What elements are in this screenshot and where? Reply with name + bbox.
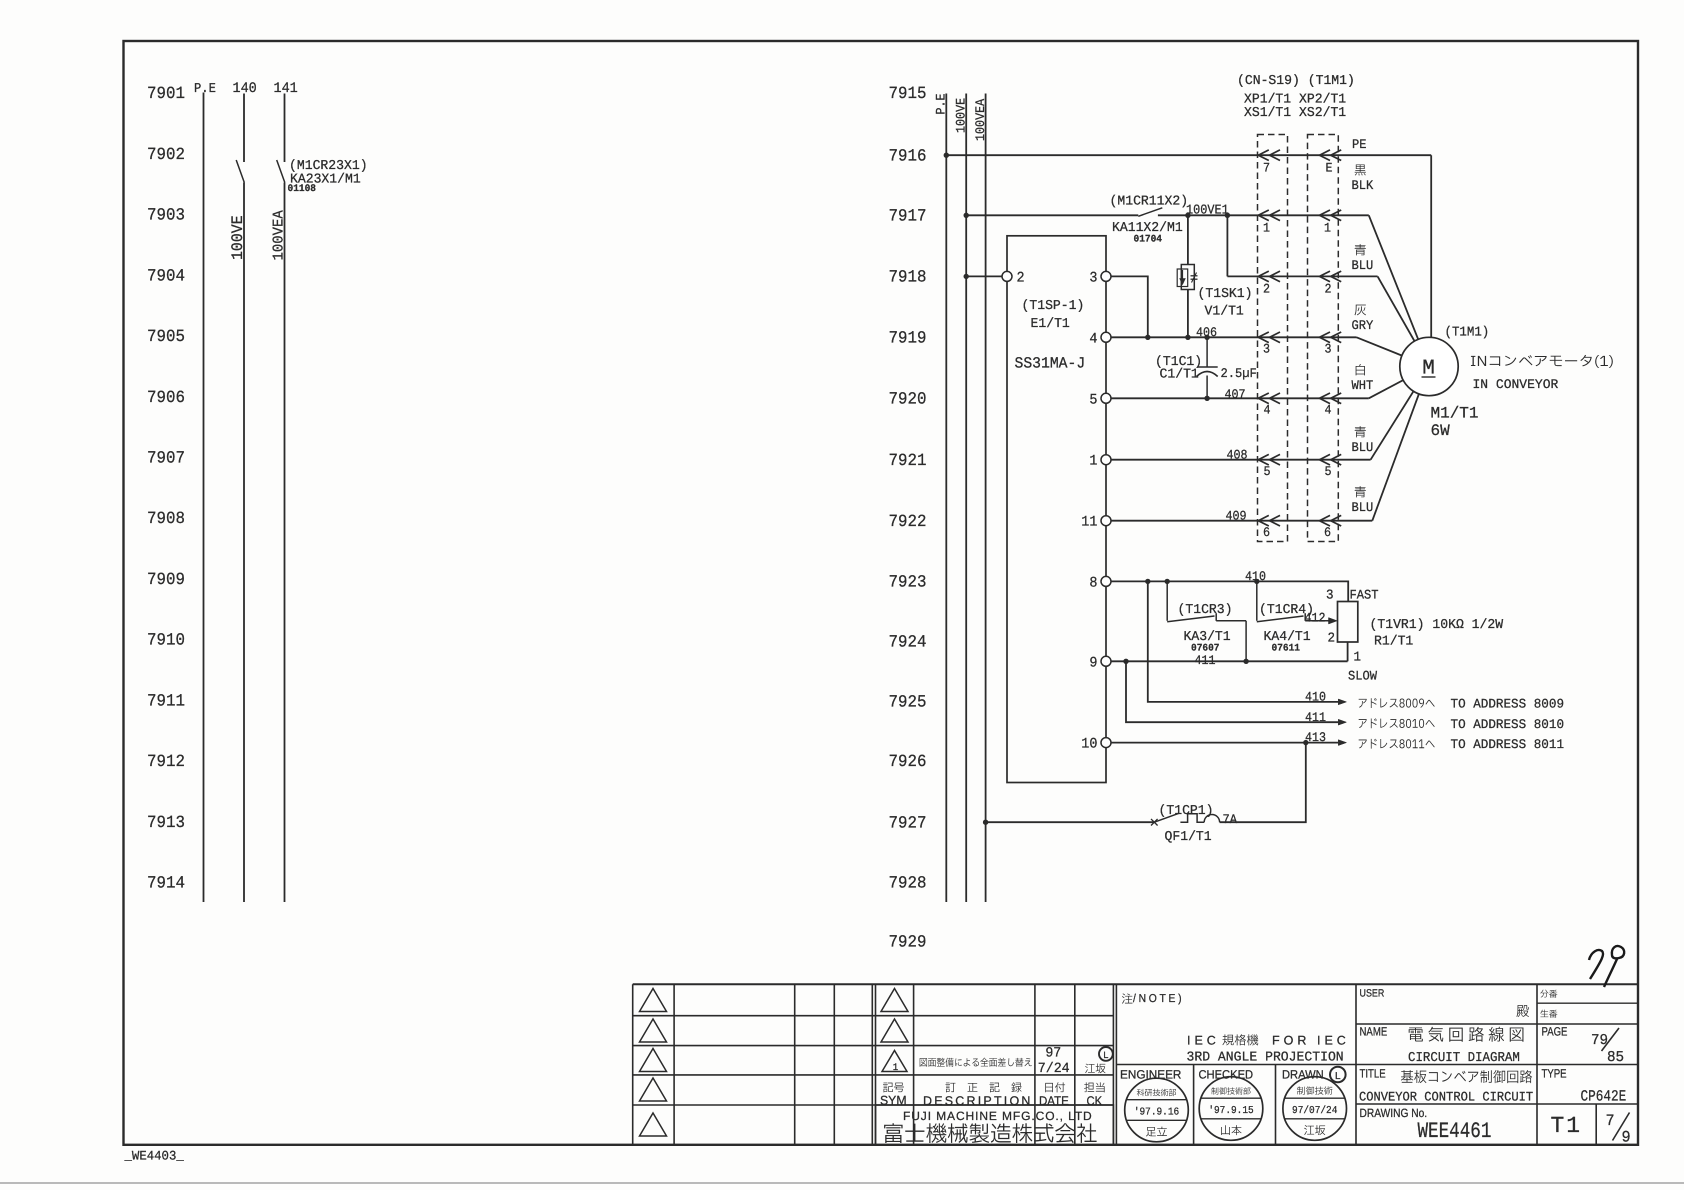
svg-text:R1/T1: R1/T1 [1374,635,1413,650]
left ladder row labels 7901-7914 [147,85,185,893]
wire color label BLU row4 jp [1355,426,1366,437]
title jp kiban conveyor seigyo kairo [1401,1070,1532,1083]
capacitor (T1C1) C1/T1 symbol [1206,337,1208,367]
drawn circled L [1330,1067,1346,1083]
svg-text:BLU: BLU [1352,500,1374,515]
svg-text:V1/T1: V1/T1 [1205,305,1244,320]
connector XP1/XS1 arrow pin 2 [1258,271,1269,282]
junction 100VE at 7918 [964,274,969,279]
svg-text:P.E: P.E [194,82,216,97]
svg-text:7904: 7904 [147,267,185,286]
right ladder row labels 7915-7929 [889,85,927,953]
varistor (T1SK1) V1/T1 symbol [1181,265,1194,290]
wire 7921 row 408 [1111,459,1371,461]
svg-text:7918: 7918 [889,269,927,288]
svg-text:PE: PE [1352,137,1367,152]
svg-text:(T1CP1): (T1CP1) [1159,804,1214,819]
motor T1M1 M1/T1 circle [1400,337,1458,395]
svg-text:3RD ANGLE PROJECTION: 3RD ANGLE PROJECTION [1187,1051,1344,1066]
svg-text:M1/T1: M1/T1 [1431,405,1479,423]
sheet cell dividers [1536,1065,1538,1145]
note box divider [1116,1064,1638,1066]
svg-text:141: 141 [274,81,298,97]
sym header jp [883,1083,904,1093]
svg-text:7914: 7914 [147,875,185,894]
bus wire 141 upper [284,94,286,163]
svg-text:DRAWING No.: DRAWING No. [1360,1106,1428,1120]
svg-text:WHT: WHT [1352,378,1374,393]
revision triangle row3 [640,1049,667,1072]
description header jp [946,1082,1022,1092]
connector XP2/XS2 arrow pin E [1320,150,1331,161]
connector XP1/XS1 dashed box [1258,135,1288,542]
svg-text:QF1/T1: QF1/T1 [1165,830,1212,845]
connector XP2/XS2 arrow pin 1 row 7917 [1320,210,1331,221]
terminal 3 circle [1101,271,1111,281]
wire 7922 diagonal to motor [1372,367,1429,521]
sym triangle row1 [881,989,908,1012]
svg-text:2: 2 [1263,282,1270,297]
svg-text:7922: 7922 [889,513,927,532]
svg-text:TYPE: TYPE [1542,1067,1567,1081]
svg-text:1: 1 [1324,221,1331,236]
junction 411 address drop [1123,659,1128,664]
svg-text:7925: 7925 [889,694,927,713]
wire color label BLU row5 jp [1355,486,1366,497]
svg-text:L: L [1335,1071,1341,1082]
svg-text:PAGE: PAGE [1542,1025,1568,1039]
terminal 5 circle [1101,393,1111,403]
bus wire 141 lower [284,183,286,903]
junction terminal3 drop at 7919 [1145,335,1150,340]
svg-text:FOR: FOR [1272,1034,1310,1048]
fuji machine jp company name [884,1123,1097,1143]
svg-text:8: 8 [1089,575,1097,591]
svg-text:NAME: NAME [1360,1025,1388,1039]
wire 7921 diagonal to motor [1371,367,1429,460]
svg-text:IN CONVEYOR: IN CONVEYOR [1473,377,1559,392]
wire 7916 PE row [946,154,1431,156]
terminal 11 circle [1101,516,1111,526]
junction 413 QF1 riser [1303,740,1308,745]
svg-text:TO ADDRESS 8009: TO ADDRESS 8009 [1451,697,1565,712]
label to address 8010 jp [1359,718,1435,728]
svg-text:1: 1 [1263,221,1270,236]
terminal 10 circle [1101,738,1111,748]
svg-text:7927: 7927 [889,814,927,833]
drawn stamp seal [1283,1077,1347,1141]
svg-text:(T1M1): (T1M1) [1445,326,1490,341]
svg-text:/NOTE): /NOTE) [1133,993,1184,1005]
svg-text:(T1CR3): (T1CR3) [1178,603,1233,618]
wire 410 to address 8009 [1148,581,1338,702]
svg-text:C1/T1: C1/T1 [1160,368,1199,383]
connector XP1/XS1 arrow pin 4 [1258,393,1269,404]
svg-text:USER: USER [1360,988,1385,1000]
engineer stamp seal [1125,1078,1189,1142]
page edge scan line [0,1182,1684,1184]
relay contact (T1CR3) KA3/T1 [1166,581,1168,620]
connector XP2/XS2 arrow pin 5 [1320,454,1331,465]
svg-text:1: 1 [893,1063,898,1074]
svg-text:07611: 07611 [1272,644,1301,655]
wire 410 row from terminal 8 [1111,581,1348,601]
svg-text:7928: 7928 [889,875,927,894]
revision triangle row5 [640,1113,667,1136]
date header jp [1045,1082,1065,1092]
svg-text:7905: 7905 [147,328,185,347]
revision triangle row1 [640,989,667,1012]
rev ck Esaka jp [1085,1064,1105,1074]
svg-text:7901: 7901 [147,85,185,104]
junction 410 KA4 drop [1254,579,1259,584]
wire 413 to address 8011 [1111,742,1338,744]
junction varistor tap at 7917 [1185,213,1190,218]
svg-text:100VE1: 100VE1 [1186,204,1229,219]
tono jp [1516,1005,1528,1017]
connector XP2/XS2 arrow pin 4 [1320,393,1331,404]
svg-text:409: 409 [1226,509,1247,524]
svg-text:7912: 7912 [147,753,185,772]
svg-text:7909: 7909 [147,571,185,590]
junction pin2 drop at 7917 [1225,213,1230,218]
wire 7927 to 413 riser [1220,743,1306,823]
relay contact KA23X1/M1 on 141 [277,160,285,183]
svg-text:01108: 01108 [288,184,317,195]
wire color label WHT jp [1356,364,1365,375]
svg-text:7921: 7921 [889,452,927,471]
svg-text:SS31MA-J: SS31MA-J [1015,355,1086,373]
wire 100VE1 drop to row 7918 [1226,215,1228,276]
svg-text:SLOW: SLOW [1348,669,1377,684]
svg-text:SYM: SYM [880,1094,907,1108]
svg-text:3: 3 [1326,589,1334,604]
svg-text:01704: 01704 [1134,235,1163,246]
svg-text:IEC: IEC [1317,1034,1350,1048]
wire 7918 from 100VE to terminal 2 [966,275,1002,277]
svg-text:11: 11 [1081,515,1097,531]
bus wire 100VE right [965,94,967,903]
sym triangle row2 [881,1019,908,1042]
svg-text:97: 97 [1045,1045,1061,1061]
wire 7927 from 100VEA [986,821,1155,823]
junction 410 KA3 drop [1165,579,1170,584]
relay contact (M1CR23X1) on 140 [236,160,244,183]
svg-text:5: 5 [1264,464,1271,479]
connector XP2/XS2 dashed box [1308,135,1339,542]
svg-text:FUJI MACHINE MFG.CO., LTD: FUJI MACHINE MFG.CO., LTD [903,1109,1093,1123]
wire VR bottom to 411 row [1347,642,1349,661]
svg-text:IEC: IEC [1187,1034,1220,1048]
wire 411 to address 8010 [1126,661,1338,722]
svg-text:'97.9.16: '97.9.16 [1134,1107,1179,1119]
svg-text:7929: 7929 [889,934,927,953]
svg-text:1: 1 [1089,454,1097,470]
revision table left verticals [632,984,634,1145]
junction capacitor bottom at 7920 [1204,396,1209,401]
speed controller (T1SP-1) E1/T1 SS31MA-J box [1007,236,1106,783]
svg-text:WEE4461: WEE4461 [1418,1119,1492,1144]
svg-text:L: L [1103,1050,1108,1060]
label to address 8009 jp [1359,698,1435,708]
wire color label GRY jp [1355,305,1366,316]
ck header jp [1084,1082,1104,1092]
junction capacitor top at 7919 [1204,335,1209,340]
svg-text:7915: 7915 [889,85,927,104]
svg-text:7923: 7923 [889,574,927,593]
svg-text:6: 6 [1263,525,1270,540]
wire terminal 3 to drop [1111,276,1148,337]
connector XP2/XS2 arrow pin 2 [1320,271,1331,282]
wire 7920 row 407 [1111,397,1369,399]
svg-text:7902: 7902 [147,146,185,165]
svg-text:7919: 7919 [889,330,927,349]
svg-text:2: 2 [1325,282,1332,297]
svg-text:7: 7 [1606,1112,1615,1130]
svg-text:BLU: BLU [1352,258,1374,273]
wire 411 row [1111,660,1348,662]
wire 7917 contact to motor bend [1158,214,1369,216]
label IN conveyor motor jp [1471,355,1613,368]
wire 7919 diagonal to motor [1357,337,1430,366]
svg-text:E1/T1: E1/T1 [1031,317,1070,332]
svg-text:7/24: 7/24 [1038,1061,1070,1077]
bus wire P.E right [945,94,947,903]
svg-text:(CN-S19) (T1M1): (CN-S19) (T1M1) [1237,74,1355,89]
sym table verticals [875,984,877,1145]
svg-text:TO ADDRESS 8011: TO ADDRESS 8011 [1451,737,1565,752]
name jp denki kairo senzu [1409,1027,1524,1042]
svg-text:7920: 7920 [889,391,927,410]
junction KA3 output at 411 [1243,659,1248,664]
wire color label BLU row1 jp [1355,244,1366,255]
connector XP1/XS1 arrow pin 6 [1258,515,1269,526]
svg-text:GRY: GRY [1352,318,1374,333]
bus wire P.E left [203,93,205,903]
svg-text:5: 5 [1325,464,1332,479]
svg-text:7910: 7910 [147,632,185,651]
svg-text:TITLE: TITLE [1360,1067,1386,1081]
wire 7920 diagonal to motor [1369,367,1429,399]
svg-text:_WE4403_: _WE4403_ [124,1149,184,1164]
svg-text:T1: T1 [1551,1113,1583,1139]
svg-text:CP642E: CP642E [1581,1088,1627,1106]
svg-text:7A: 7A [1223,812,1238,827]
svg-text:(T1SP-1): (T1SP-1) [1022,299,1085,314]
relay contact KA11X2/M1 (M1CR11X2) [1138,208,1162,217]
svg-text:7924: 7924 [889,634,927,653]
svg-text:7906: 7906 [147,389,185,408]
connector XP1/XS1 arrow pin 1 row 7917 [1258,210,1269,221]
svg-text:FAST: FAST [1350,588,1379,603]
revision+sym table horizontal lines [633,1015,1114,1017]
title block outer top line [633,983,1638,985]
svg-text:TO ADDRESS 8010: TO ADDRESS 8010 [1451,717,1565,732]
svg-text:7907: 7907 [147,450,185,469]
svg-text:XS1/T1 XS2/T1: XS1/T1 XS2/T1 [1244,106,1346,121]
user cell lines [1536,984,1538,1064]
svg-text:7917: 7917 [889,208,927,227]
junction P.E at 7916 [944,153,949,158]
svg-text:CK: CK [1087,1094,1103,1108]
terminal 9 circle [1101,656,1111,666]
svg-text:1: 1 [1354,651,1362,666]
svg-text:BLU: BLU [1352,440,1374,455]
svg-text:85: 85 [1607,1049,1624,1066]
svg-text:DATE: DATE [1039,1094,1069,1108]
svg-text:6: 6 [1324,525,1331,540]
relay contact (T1CR4) KA4/T1 [1256,581,1258,620]
terminal 4 circle [1101,332,1111,342]
label to address 8011 jp [1359,739,1435,749]
svg-text:3: 3 [1263,342,1270,357]
svg-text:3: 3 [1325,342,1332,357]
sym triangle row3 rev 1 [882,1051,907,1072]
svg-text:5: 5 [1089,392,1097,408]
connector XP2/XS2 arrow pin 6 [1320,515,1331,526]
revision triangle row2 [640,1019,667,1042]
terminal 8 circle [1101,576,1111,586]
wire PE drop to motor [1430,155,1432,366]
note label jp [1122,993,1133,1003]
wire 7918 diagonal to motor [1378,276,1429,366]
junction 100VEA at 7927 [983,820,988,825]
svg-text:100VEA: 100VEA [271,210,288,260]
svg-text:412: 412 [1305,611,1326,626]
svg-text:'97.9.15: '97.9.15 [1208,1105,1253,1117]
wire 7918 row to connector [1227,275,1377,277]
potentiometer (T1VR1) R1/T1 body [1338,602,1358,643]
handwritten check mark top right [1589,950,1603,979]
svg-text:7: 7 [1263,161,1270,176]
svg-text:4: 4 [1325,403,1332,418]
svg-text:CONVEYOR CONTROL CIRCUIT: CONVEYOR CONTROL CIRCUIT [1359,1090,1533,1105]
svg-text:7913: 7913 [147,814,185,833]
seiban label jp [1540,1010,1557,1018]
engineer checked drawn dividers [1193,1065,1195,1145]
checked stamp seal [1199,1077,1263,1141]
bus wire 140 lower [243,183,245,903]
circuit breaker (T1CP1) QF1/T1 symbol [1151,819,1158,826]
svg-text:407: 407 [1225,387,1246,402]
svg-text:7926: 7926 [889,753,927,772]
svg-text:10: 10 [1081,737,1097,753]
svg-text:4: 4 [1089,331,1097,347]
junction varistor at 7919 [1185,335,1190,340]
svg-text:411: 411 [1305,710,1326,725]
svg-text:7916: 7916 [889,147,927,166]
svg-text:6W: 6W [1431,422,1451,440]
bus wire 100VEA right [985,94,987,903]
rev description text jp [920,1058,1032,1067]
svg-text:DESCRIPTION: DESCRIPTION [923,1094,1033,1108]
title row divider [1356,1103,1638,1105]
connector XP1/XS1 arrow pin 3 [1258,332,1269,343]
wire 7917 diagonal to motor [1369,215,1429,366]
rev ck circled mark [1099,1047,1113,1061]
svg-text:7908: 7908 [147,510,185,529]
junction 410 address drop [1145,579,1150,584]
wire varistor top lead [1187,215,1189,264]
svg-text:2: 2 [1017,270,1025,286]
svg-text:(T1VR1) 10KΩ 1/2W: (T1VR1) 10KΩ 1/2W [1370,618,1504,633]
terminal 1 circle [1101,455,1111,465]
connector XP1/XS1 arrow pin 5 [1258,454,1269,465]
wire 7922 row 409 [1111,520,1372,522]
svg-text:CIRCUIT DIAGRAM: CIRCUIT DIAGRAM [1408,1051,1520,1066]
wire color label BLK jp [1355,164,1366,175]
junction 100VE at 7917 [964,213,969,218]
revision triangle row4 [640,1078,667,1101]
svg-text:9: 9 [1622,1129,1631,1147]
svg-text:410: 410 [1305,690,1326,705]
bunban label jp [1540,990,1557,998]
svg-text:100VE: 100VE [229,215,247,260]
svg-text:411: 411 [1195,653,1216,668]
svg-text:(M1CR11X2): (M1CR11X2) [1110,195,1189,210]
svg-text:408: 408 [1227,448,1248,463]
wire 7919 row 406 [1111,336,1357,338]
svg-text:(T1SK1): (T1SK1) [1198,287,1253,302]
svg-text:7911: 7911 [147,692,185,711]
wire 7917 from 100VE to contact [966,214,1138,216]
svg-text:2: 2 [1327,632,1335,647]
connector XP1/XS1 arrow pin 7 [1258,150,1269,161]
terminal 2 circle [1002,271,1012,281]
connector XP2/XS2 arrow pin 3 [1320,332,1331,343]
svg-text:7903: 7903 [147,207,185,226]
note box verticals [1115,984,1117,1145]
svg-text:E: E [1326,161,1333,176]
bus wire 140 upper [243,94,245,163]
svg-text:2.5µF: 2.5µF [1221,366,1257,381]
svg-text:9: 9 [1089,655,1097,671]
svg-text:4: 4 [1264,403,1271,418]
svg-text:3: 3 [1089,270,1097,286]
svg-text:BLK: BLK [1352,178,1374,193]
svg-text:97/07/24: 97/07/24 [1292,1105,1337,1117]
wire varistor bottom lead [1187,290,1189,338]
